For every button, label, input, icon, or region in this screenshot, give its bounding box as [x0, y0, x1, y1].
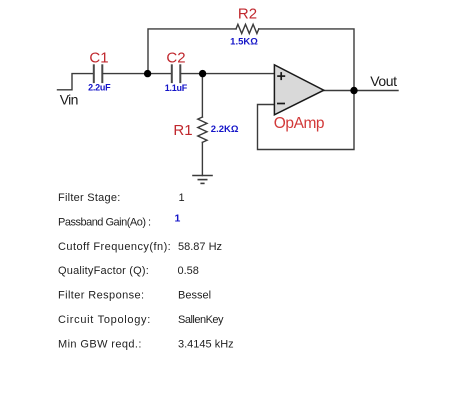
svg-text:Cutoff Frequency(fn):: Cutoff Frequency(fn):: [58, 241, 171, 253]
wire feedback loop to minus input: [258, 91, 355, 150]
svg-text:2.2uF: 2.2uF: [88, 82, 111, 92]
svg-text:Passband Gain(Ao) :: Passband Gain(Ao) :: [58, 216, 151, 228]
wire C1 to node A: [103, 73, 148, 75]
capacitor C1: [94, 65, 103, 82]
svg-text:Filter Stage:: Filter Stage:: [58, 192, 121, 204]
svg-text:R1: R1: [173, 122, 192, 139]
svg-text:C1: C1: [89, 50, 108, 67]
wire node A to C2: [148, 73, 172, 75]
wire op-amp output to Vout: [324, 90, 399, 92]
wire node B down to R1: [201, 74, 203, 117]
svg-text:SallenKey: SallenKey: [178, 314, 224, 326]
wire C2 to op-amp plus input: [181, 73, 274, 75]
resistor R2: [236, 24, 259, 33]
wire Vin stub: [58, 74, 94, 90]
svg-text:1.1uF: 1.1uF: [165, 83, 188, 93]
svg-text:58.87 Hz: 58.87 Hz: [178, 241, 222, 253]
ground: [193, 176, 212, 184]
svg-text:1: 1: [175, 213, 181, 225]
svg-text:OpAmp: OpAmp: [274, 115, 324, 132]
wire R2 to output column: [259, 29, 354, 91]
svg-text:R2: R2: [238, 6, 257, 23]
svg-text:C2: C2: [166, 50, 185, 67]
svg-text:1.5KΩ: 1.5KΩ: [230, 36, 258, 47]
node B junction dot: [199, 70, 206, 77]
svg-text:2.2KΩ: 2.2KΩ: [211, 124, 239, 135]
node Vout junction dot: [350, 87, 357, 94]
svg-text:Min GBW reqd.:: Min GBW reqd.:: [58, 338, 142, 350]
svg-text:Bessel: Bessel: [178, 290, 211, 302]
svg-text:Vout: Vout: [370, 73, 397, 89]
wire R1 to ground: [201, 142, 203, 175]
capacitor C2: [172, 65, 181, 82]
svg-text:Filter Response:: Filter Response:: [58, 290, 145, 302]
wire node A up to R2: [148, 29, 236, 74]
node A junction dot: [144, 70, 151, 77]
op-amp U1: [274, 65, 323, 115]
svg-text:0.58: 0.58: [178, 265, 199, 277]
resistor R1: [198, 117, 207, 142]
svg-text:Circuit Topology:: Circuit Topology:: [58, 314, 151, 326]
svg-text:QualityFactor (Q):: QualityFactor (Q):: [58, 265, 149, 277]
svg-text:3.4145 kHz: 3.4145 kHz: [178, 338, 234, 350]
svg-text:Vin: Vin: [60, 92, 78, 108]
svg-text:1: 1: [179, 192, 185, 204]
